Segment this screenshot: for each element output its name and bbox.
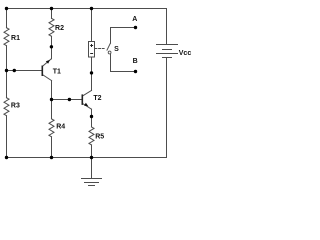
svg-text:T2: T2: [93, 95, 101, 102]
svg-text:B: B: [133, 58, 138, 65]
svg-text:A: A: [132, 16, 137, 23]
svg-text:R1: R1: [11, 35, 20, 42]
svg-text:R3: R3: [11, 103, 20, 110]
svg-text:R5: R5: [95, 133, 104, 140]
svg-text:S: S: [114, 46, 119, 53]
svg-text:R4: R4: [56, 124, 65, 131]
svg-text:T1: T1: [53, 69, 61, 76]
svg-text:R2: R2: [55, 25, 64, 32]
svg-text:Vcc: Vcc: [179, 50, 192, 57]
